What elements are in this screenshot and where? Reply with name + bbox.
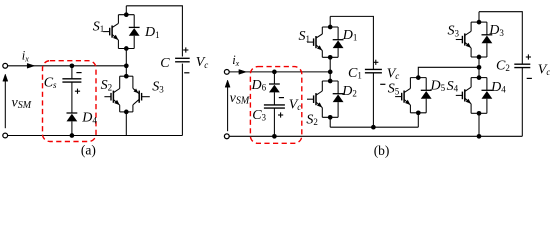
svg-text:(a): (a) [81, 143, 96, 158]
wire: S1 cell to phase (b) [329, 57, 331, 72]
wire: S1 cell to phase node (a) [125, 49, 127, 66]
wire: ix phase wire (b) [229, 71, 330, 73]
diode D3 (b) [486, 22, 488, 35]
node: Cs tap on phase wire (a) [70, 63, 75, 68]
transistor S5 (b) [409, 78, 411, 89]
plus of C1 (b) [373, 61, 378, 63]
polarity plus of Cs (a) [75, 90, 80, 92]
node: S4 on bottom rail (b) [477, 134, 482, 139]
wire: Cs to D4 (a) [71, 82, 73, 113]
wire: right top rail to C2 (b) [479, 12, 522, 65]
red dashed box around Cs and D4 (a) [43, 61, 97, 142]
wire: stub top rail to S1 cell (b) [329, 16, 331, 27]
transistor S1 (b) [321, 27, 323, 34]
wire: top rail (a) to capacitor C [126, 6, 182, 57]
plus of C2 (b) [526, 56, 531, 58]
node: bottom of S3 (b) cell [477, 55, 482, 60]
node: top of S3 (b) cell [477, 20, 482, 25]
wire: D4 to bottom rail (a) [71, 121, 73, 135]
wire: S5 cell top to right bridge mid (b) [418, 67, 479, 77]
wire: S5 cell to clamp rail (b) [417, 113, 419, 127]
capacitor C3 (b) [264, 104, 285, 106]
diode D1 (b) [337, 27, 339, 40]
node: bottom of S2 (b) cell [328, 115, 333, 120]
voltage arrow v_SM (a) [4, 80, 6, 128]
wire: ix phase wire (a) [8, 65, 126, 67]
wire: phase to S2 cell (b) [329, 72, 331, 81]
capacitor C2 (b) [514, 63, 530, 65]
node: bottom of S5 (b) cell [416, 110, 421, 115]
wire: pair cell bottom edge (a) [120, 111, 133, 113]
wire: clamp bottom rail (b) [330, 126, 418, 128]
transistor S1 (a) [117, 15, 119, 24]
node: D4 on bottom rail (a) [70, 133, 75, 138]
capacitor C (a) [175, 57, 190, 59]
node: top of S2 (b) cell [328, 79, 333, 84]
diode D4 (b) [486, 78, 488, 91]
minus of C1 (b) [380, 83, 385, 85]
node: pair cell top (a) [124, 74, 129, 79]
wire: phase node to S2/S3 cell (a) [125, 66, 127, 76]
node: top of S5 (b) cell [416, 75, 421, 80]
switch cell S1/D1 (b): loop wires [322, 26, 338, 28]
wire: capacitor C bottom lead (a) [181, 64, 183, 136]
node: phase junction (b) [328, 70, 333, 75]
node: C3 on bottom rail (b) [272, 134, 277, 139]
terminal: ix input (a) [3, 63, 8, 68]
node: right bridge mid junction (b) [477, 65, 482, 70]
diode D5 (b) [425, 78, 427, 91]
wire: phase to Cs (a) [71, 66, 73, 79]
svg-text:C: C [160, 56, 170, 71]
wire: pair cell top edge (a) [120, 75, 133, 77]
plus of C (a) [183, 49, 188, 51]
transistor S3 (a) [132, 76, 134, 88]
minus of C2 (b) [527, 77, 532, 79]
current arrow i_x (b) [239, 70, 246, 75]
switch cell S5/D5 (b): loop wires [410, 77, 426, 79]
wire: S2 cell to clamp rail (b) [329, 117, 331, 127]
node: bottom of S4 (b) cell [477, 111, 482, 116]
voltage arrow v_SM (b) [227, 86, 229, 131]
diode D2 (b) [337, 81, 339, 94]
polarity minus of Cs (a) [76, 72, 81, 74]
transistor S3 (b) [470, 22, 472, 31]
wire: S2/S3 cell to bottom rail (a) [125, 112, 127, 136]
wire: D6 to C3 (b) [273, 92, 275, 105]
wire: S4 cell to bottom rail (b) [478, 113, 480, 136]
diode D1 (a) [133, 15, 135, 28]
capacitor C1 (b) [365, 68, 382, 70]
wire: bottom rail (b) [229, 135, 522, 137]
node: top of S4 (b) cell [477, 75, 482, 80]
wire: left top rail to C1 (b) [330, 16, 373, 69]
switch cell S3/D3 (b): loop wires [471, 21, 487, 23]
wire: C3 to bottom rail (b) [273, 108, 275, 136]
node: D6 tap on phase wire (b) [272, 70, 277, 75]
diode D6 (b) [269, 83, 280, 85]
transistor S4 (b) [470, 78, 472, 88]
wire: stub top rail to S3 cell (b) [478, 12, 480, 22]
wire: C2 bottom lead (b) [521, 68, 523, 137]
plus of C3 (b) [278, 114, 283, 116]
node: pair cell bottom (a) [124, 110, 129, 115]
transistor S2 (a) [119, 76, 121, 88]
minus of C3 (b) [279, 97, 284, 99]
switch cell S2/D2 (b): loop wires [322, 80, 338, 82]
node: C1 on clamp rail (b) [371, 125, 376, 130]
switch cell S4/D4 (b): loop wires [471, 77, 487, 79]
node: bottom of S1 (a) cell [124, 46, 129, 51]
wire: stub top rail to S1 cell (a) [125, 6, 127, 15]
current arrow i_x (a) [27, 63, 34, 68]
transistor S2 (b) [321, 81, 323, 91]
capacitor Cs (a) [62, 78, 81, 80]
terminal: ix input (b) [224, 70, 229, 75]
diode D4 (a) [67, 112, 78, 114]
node: bottom of S1 (b) cell [328, 55, 333, 60]
minus of C (a) [184, 72, 189, 74]
node: phase junction (a) [124, 63, 129, 68]
svg-text:(b): (b) [374, 143, 390, 158]
wire: right bridge mid column (b) [478, 57, 480, 78]
terminal: bottom (a) [3, 133, 8, 138]
terminal: bottom (b) [224, 134, 229, 139]
wire: phase to D6 (b) [273, 72, 275, 84]
node: top of S1 (a) cell [124, 12, 129, 17]
switch cell S1/D1 (a): loop wires [118, 14, 134, 16]
node: top of S1 (b) cell [328, 25, 333, 30]
wire: bottom rail (a) [8, 135, 182, 137]
red dashed box around D6 and C3 (b) [250, 67, 301, 144]
wire: C1 bottom lead (b) [372, 73, 374, 128]
